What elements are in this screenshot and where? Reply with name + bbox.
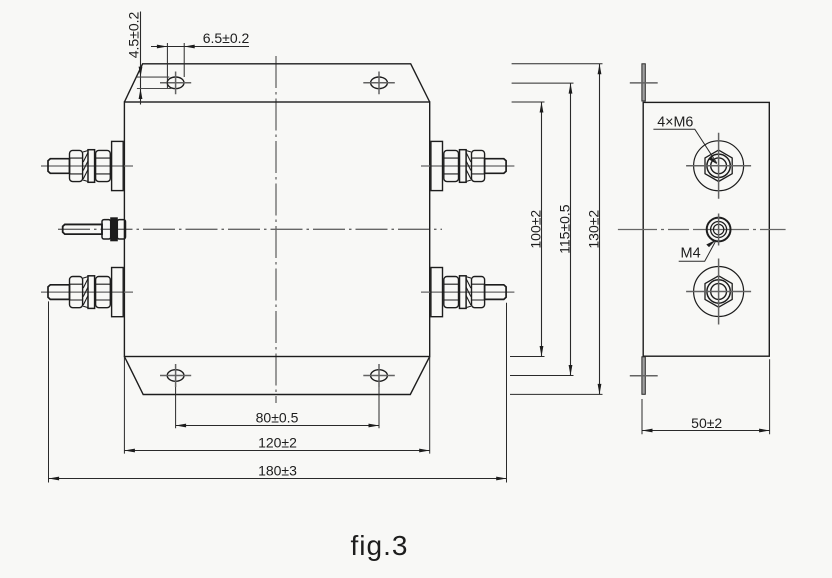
svg-text:M4: M4 bbox=[681, 245, 701, 261]
label 4xM6 bbox=[653, 115, 717, 165]
bottom flange bbox=[124, 357, 429, 395]
svg-text:50±2: 50±2 bbox=[691, 415, 722, 431]
dim 6.5±0.2 bbox=[151, 30, 250, 88]
svg-text:4.5±0.2: 4.5±0.2 bbox=[126, 11, 142, 58]
dim 180±3 bbox=[49, 301, 507, 482]
body box bbox=[124, 102, 429, 357]
main vertical centerline bbox=[275, 56, 277, 403]
side body bbox=[643, 102, 769, 356]
side horizontal centerline bbox=[618, 229, 786, 231]
dim 50±2 bbox=[642, 359, 770, 434]
dim 130±2 bbox=[510, 64, 603, 395]
tab centerline bottom bbox=[630, 375, 658, 377]
dim 4.5±0.2 bbox=[126, 11, 172, 104]
svg-text:120±2: 120±2 bbox=[258, 435, 297, 451]
dim 100±2 bbox=[510, 102, 545, 357]
main horizontal centerline bbox=[58, 228, 442, 230]
svg-text:180±3: 180±3 bbox=[258, 462, 297, 478]
mounting hole bottom-right bbox=[363, 364, 395, 387]
dim 80±0.5 bbox=[176, 387, 379, 428]
dim 115±0.5 bbox=[510, 83, 574, 375]
dim 120±2 bbox=[124, 357, 429, 454]
terminal centerline right bottom bbox=[421, 291, 514, 293]
top flange tab bbox=[642, 64, 645, 101]
svg-text:6.5±0.2: 6.5±0.2 bbox=[203, 30, 250, 46]
terminal top-left bbox=[48, 141, 123, 190]
terminal bottom-left bbox=[48, 268, 123, 317]
mounting hole top-right bbox=[363, 72, 395, 95]
ground stud middle-left bbox=[63, 218, 126, 241]
svg-text:115±0.5: 115±0.5 bbox=[557, 204, 573, 254]
svg-text:100±2: 100±2 bbox=[528, 210, 544, 249]
terminal bottom-right bbox=[431, 268, 506, 317]
label M4 bbox=[679, 240, 717, 262]
M4 hole bbox=[707, 214, 731, 246]
svg-text:fig.3: fig.3 bbox=[351, 530, 409, 561]
tab centerline top bbox=[630, 82, 658, 84]
mounting hole top-left bbox=[160, 72, 191, 95]
M6 hole bottom bbox=[686, 259, 751, 325]
terminal centerline bottom row bbox=[41, 291, 133, 293]
svg-text:130±2: 130±2 bbox=[586, 210, 602, 249]
svg-text:4×M6: 4×M6 bbox=[657, 115, 693, 131]
terminal top-right bbox=[431, 141, 506, 190]
top flange bbox=[124, 64, 429, 102]
svg-text:80±0.5: 80±0.5 bbox=[256, 410, 299, 426]
terminal centerline right top bbox=[421, 165, 514, 167]
mounting hole bottom-left bbox=[160, 364, 191, 387]
bottom flange tab bbox=[642, 357, 645, 395]
terminal centerline top row bbox=[41, 165, 133, 167]
M6 hole top bbox=[686, 133, 751, 199]
